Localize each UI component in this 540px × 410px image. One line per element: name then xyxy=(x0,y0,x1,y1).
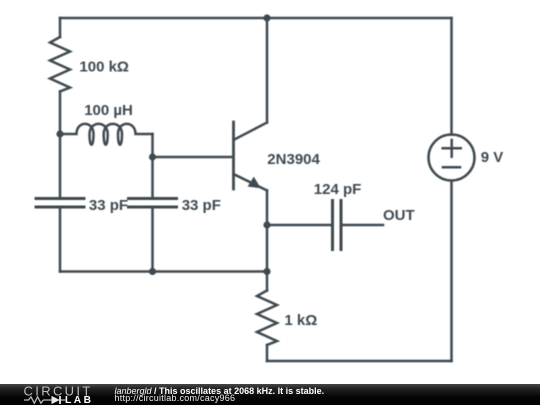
wire bottom bus xyxy=(60,270,267,273)
logo resistor-diode glyph xyxy=(24,396,66,404)
capacitor C2 33 pF xyxy=(129,199,177,208)
svg-text:100 µH: 100 µH xyxy=(84,102,133,119)
junction node bottom bus emitter xyxy=(263,268,270,275)
wire right rail top xyxy=(450,18,453,135)
transistor Q1 2N3904 base bar xyxy=(232,122,235,189)
junction node base xyxy=(149,153,156,160)
wire inductor to node xyxy=(151,134,154,157)
wire right rail bottom xyxy=(450,181,453,362)
voltage source V1 minus sign xyxy=(443,166,460,169)
wire node to capacitor C2 xyxy=(151,157,154,197)
wire collector to top bus xyxy=(266,18,269,123)
junction node inductor left xyxy=(56,130,63,137)
logo diode triangle xyxy=(52,396,60,404)
svg-text:2N3904: 2N3904 xyxy=(267,151,320,168)
wire resistor R2 to bottom xyxy=(266,345,269,361)
svg-text:1 kΩ: 1 kΩ xyxy=(284,312,317,329)
voltage source V1 plus sign xyxy=(443,140,461,157)
footer text xyxy=(114,383,116,385)
wire capacitor C3 to OUT xyxy=(343,224,384,227)
wire left rail bottom xyxy=(59,208,62,272)
svg-text:100 kΩ: 100 kΩ xyxy=(79,59,129,76)
wire left rail middle xyxy=(59,92,62,198)
svg-text:OUT: OUT xyxy=(383,207,415,224)
junction node top collector xyxy=(263,14,270,21)
junction node emitter out xyxy=(263,221,270,228)
wire node to base xyxy=(153,156,233,159)
wire emitter node to capacitor C3 xyxy=(267,224,331,227)
footer bar xyxy=(0,384,540,405)
wire left rail top xyxy=(59,18,62,37)
voltage source V1 9V circle xyxy=(429,135,475,181)
svg-text:33 pF: 33 pF xyxy=(182,197,221,214)
capacitor C3 124 pF xyxy=(333,201,342,250)
wire capacitor C2 to bottom bus xyxy=(151,208,154,272)
svg-text:33 pF: 33 pF xyxy=(89,197,128,214)
CircuitLab logo xyxy=(0,384,110,405)
svg-text:124 pF: 124 pF xyxy=(314,181,362,198)
wire bottom return xyxy=(267,360,452,363)
resistor R2 1 kOhm lead top xyxy=(266,272,269,291)
resistor R1 100 kOhm xyxy=(50,37,70,92)
svg-text:9 V: 9 V xyxy=(481,149,504,166)
capacitor C1 33 pF xyxy=(36,199,84,208)
transistor Q1 collector diagonal xyxy=(234,123,268,141)
svg-text:LAB: LAB xyxy=(65,395,93,405)
junction node bottom bus C2 xyxy=(149,268,156,275)
wire top bus xyxy=(60,17,452,20)
resistor R2 1 kOhm xyxy=(257,291,277,346)
transistor Q1 emitter diagonal xyxy=(234,174,268,191)
transistor Q1 emitter arrow xyxy=(248,177,261,189)
wire emitter down xyxy=(266,191,269,272)
inductor L1 100 uH xyxy=(60,124,153,145)
